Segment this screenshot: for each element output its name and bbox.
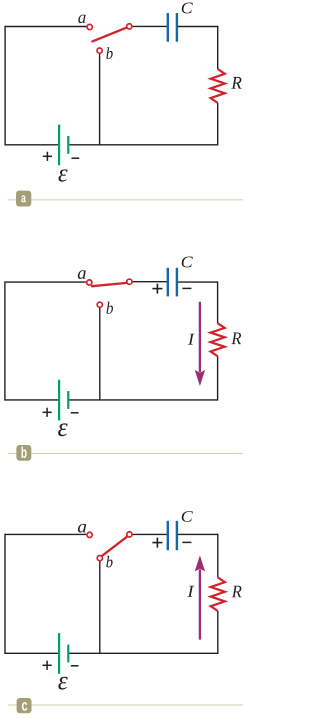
panel badge (a) [16, 191, 31, 207]
current arrow I [199, 569, 201, 639]
wire: top-left segment to switch contact a [5, 281, 86, 283]
wire: middle vertical from contact b down to bottom wire [99, 308, 101, 400]
battery + terminal sign [43, 411, 52, 413]
node label b [107, 302, 114, 314]
battery long plate (+) [58, 633, 60, 674]
wire: right vertical below resistor [217, 356, 219, 400]
battery - terminal sign [71, 412, 79, 414]
resistor value label R [231, 77, 241, 89]
switch contact b (circle) [97, 48, 102, 53]
battery short plate (-) [67, 391, 69, 409]
switch contact a (circle) [87, 532, 92, 537]
switch contact a (circle) [87, 24, 92, 29]
wire: top-left segment to switch contact a [5, 533, 86, 535]
wire: top segment from capacitor to top-right corner [178, 26, 218, 28]
wire: top-left segment to switch contact a [5, 26, 86, 28]
wire: top segment from switch pivot to capacitor [133, 533, 167, 535]
wire: bottom segment from battery through junction to right corner [69, 652, 217, 654]
wire: right vertical above resistor [217, 26, 219, 69]
capacitor + charge sign [152, 542, 162, 544]
battery + terminal sign [43, 664, 52, 666]
resistor R zigzag [211, 323, 225, 356]
capacitor value label C [182, 257, 193, 268]
switch blade [102, 536, 128, 556]
capacitor C left plate [167, 268, 169, 297]
wire: bottom segment from left corner to battery [5, 144, 58, 146]
battery EMF label epsilon [58, 423, 68, 436]
battery EMF label epsilon [59, 169, 68, 181]
node label b [106, 556, 112, 568]
capacitor C right plate [176, 13, 178, 42]
current label I [188, 334, 195, 345]
battery - terminal sign [71, 665, 79, 667]
wire: bottom segment from left corner to battery [5, 652, 58, 654]
wire: middle vertical from contact b down to bottom wire [99, 54, 101, 145]
wire: middle vertical from contact b down to bottom wire [99, 561, 101, 653]
battery EMF label epsilon [58, 677, 67, 690]
node label a [78, 15, 85, 24]
switch pivot contact (circle) [127, 532, 132, 537]
current label I [187, 586, 194, 597]
capacitor value label C [182, 511, 193, 522]
panel badge (b) [16, 445, 31, 461]
resistor R zigzag [211, 577, 225, 611]
switch pivot contact (circle) [127, 279, 132, 284]
panel badge (c) [17, 698, 32, 713]
wire: top segment from switch pivot to capacitor [133, 25, 167, 27]
wire: bottom segment from left corner to battery [5, 399, 58, 401]
switch contact b (circle) [97, 555, 102, 560]
wire: top segment from capacitor to top-right corner [178, 533, 218, 535]
battery short plate (-) [67, 645, 69, 663]
battery long plate (+) [58, 125, 60, 166]
capacitor - charge sign [182, 287, 191, 289]
capacitor C right plate [176, 268, 178, 297]
wire: left vertical side [4, 26, 6, 146]
current arrow I [199, 302, 201, 372]
resistor R zigzag [211, 69, 225, 103]
panel separator line [8, 704, 243, 706]
wire: left vertical side [4, 534, 6, 654]
node label a [78, 524, 86, 533]
wire: right vertical below resistor [217, 611, 219, 654]
wire: right vertical below resistor [217, 103, 219, 146]
battery - terminal sign [72, 157, 80, 159]
switch contact b (circle) [97, 302, 102, 307]
capacitor + charge sign [152, 288, 162, 290]
wire: bottom segment from battery through junction to right corner [69, 399, 217, 401]
wire: left vertical side [4, 281, 6, 400]
capacitor - charge sign [182, 541, 191, 543]
wire: top segment from capacitor to top-right corner [178, 281, 218, 283]
switch pivot contact (circle) [127, 24, 132, 29]
node label a [78, 270, 86, 279]
switch blade [92, 28, 126, 42]
wire: right vertical above resistor [217, 281, 219, 323]
capacitor C right plate [176, 521, 178, 550]
resistor value label R [231, 333, 241, 345]
battery long plate (+) [58, 380, 60, 421]
capacitor C left plate [167, 13, 169, 42]
battery short plate (-) [67, 136, 69, 154]
switch blade [92, 283, 127, 286]
panel separator line [8, 452, 243, 454]
resistor value label R [232, 586, 242, 598]
switch contact a (circle) [87, 280, 92, 285]
panel separator line [8, 199, 243, 201]
battery + terminal sign [43, 155, 52, 157]
wire: right vertical above resistor [217, 534, 219, 578]
capacitor value label C [182, 3, 193, 14]
capacitor C left plate [167, 521, 169, 550]
wire: bottom segment from battery through junction to right corner [69, 144, 217, 146]
wire: top segment from switch pivot to capacitor [133, 281, 167, 283]
node label b [106, 47, 112, 59]
